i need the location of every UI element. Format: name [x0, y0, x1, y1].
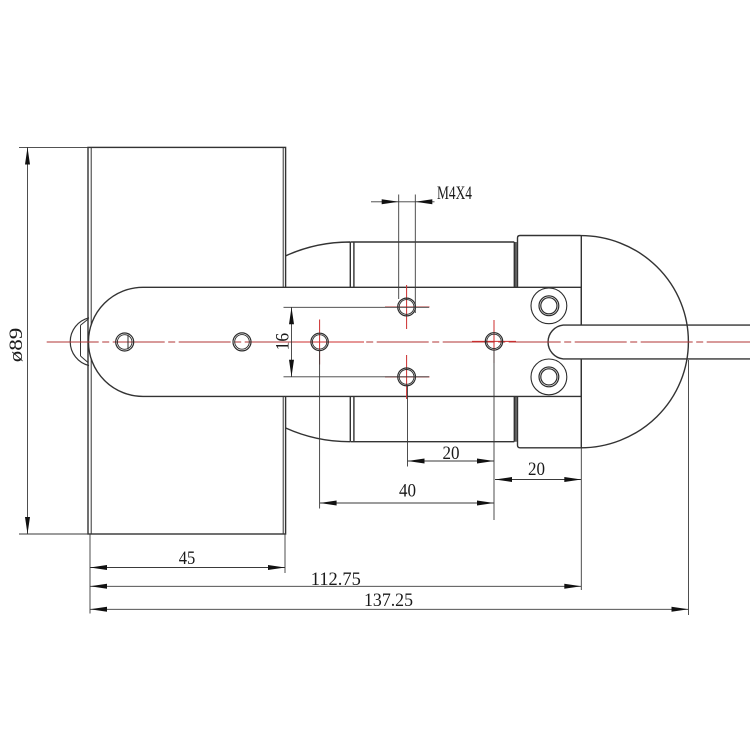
svg-text:40: 40 [399, 481, 416, 502]
svg-text:20: 20 [443, 443, 460, 464]
svg-text:137.25: 137.25 [364, 590, 413, 611]
svg-text:20: 20 [528, 459, 545, 480]
svg-text:M4X4: M4X4 [437, 183, 472, 204]
svg-text:ø89: ø89 [6, 328, 27, 363]
svg-text:112.75: 112.75 [311, 569, 361, 590]
svg-text:16: 16 [273, 333, 294, 351]
svg-text:45: 45 [179, 548, 196, 569]
